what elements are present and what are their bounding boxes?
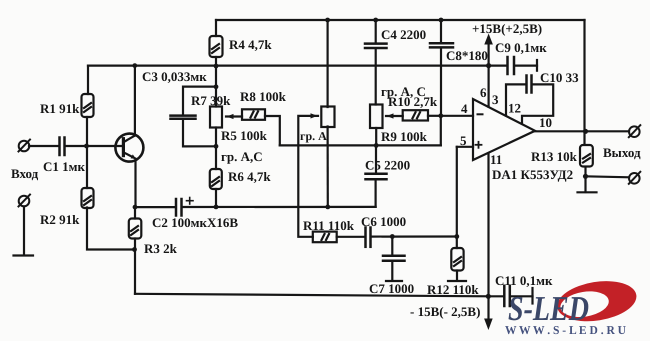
wire R10 right lead [428, 115, 441, 117]
wire R4 leads [215, 20, 217, 36]
wire pin11 / -15V stem [487, 154, 489, 319]
wire right drop to output [583, 20, 585, 144]
wire R8 trunk bottom [327, 127, 329, 207]
resistor R3 [129, 219, 142, 239]
wire R3 leads [134, 207, 136, 218]
wire R7 right leg [265, 116, 280, 145]
op-amp minus sign [478, 113, 483, 115]
svg-text:C11 0,1мк: C11 0,1мк [495, 273, 553, 288]
terminal output 2 [629, 172, 641, 184]
wire input to base [65, 145, 123, 147]
svg-text:C3 0,033мк: C3 0,033мк [142, 69, 207, 84]
svg-text:R7 39k: R7 39k [191, 93, 231, 108]
svg-text:DA1 К553УД2: DA1 К553УД2 [492, 167, 573, 182]
terminal output 1 [629, 125, 641, 137]
svg-text:C2 100мкХ16В: C2 100мкХ16В [152, 215, 238, 230]
wire C4 top lead [375, 20, 377, 43]
svg-text:R12 110k: R12 110k [427, 282, 479, 297]
capacitor C8 [430, 43, 453, 47]
transistor VT1 [115, 134, 143, 162]
wire pin6 [488, 66, 490, 107]
wire C2 to C5 bottom with R6 R8 taps [182, 206, 376, 208]
wire C11 end stub [531, 288, 533, 304]
svg-text:+15В(+2,5В): +15В(+2,5В) [472, 21, 542, 36]
svg-text:3: 3 [492, 92, 499, 107]
wire C7 bottom stub [391, 262, 393, 281]
svg-text:C7 1000: C7 1000 [369, 281, 414, 296]
terminal input 1 [19, 140, 31, 152]
wire top bootstrap rail [216, 19, 585, 21]
svg-text:C4 2200: C4 2200 [381, 27, 426, 42]
svg-text:Вход: Вход [11, 166, 39, 181]
wire collector lead [134, 66, 136, 136]
wire pin5 [457, 146, 473, 148]
svg-text:C10 33: C10 33 [540, 70, 579, 85]
wire R1 bottom lead [86, 117, 88, 146]
capacitor C9 [508, 57, 515, 74]
wire R8 wiper branch [298, 116, 318, 237]
capacitor C5 [366, 174, 387, 179]
svg-text:- 15В(- 2,5В): - 15В(- 2,5В) [410, 304, 480, 319]
trimmer R10 [403, 110, 428, 120]
wire C7 top lead [391, 237, 393, 256]
svg-text:R5 100k: R5 100k [221, 128, 268, 143]
wire C11 leads [488, 295, 503, 297]
wire R8 trunk top [327, 20, 329, 107]
capacitor C4 [365, 44, 387, 48]
wire C8 vertical [440, 20, 442, 43]
potentiometer R8 [311, 107, 335, 128]
wire C3 branch bottom [183, 120, 216, 147]
resistor R6 [210, 169, 222, 189]
capacitor C10 [527, 76, 532, 93]
svg-text:R1 91k: R1 91k [40, 101, 80, 116]
capacitor C2 [176, 199, 182, 216]
terminal input 2 [19, 195, 31, 207]
wire C9 leads [489, 64, 507, 66]
svg-text:C1 1мк: C1 1мк [43, 159, 85, 174]
wire to output terminal 2 [586, 176, 630, 177]
wire bus corner to R1 [87, 66, 89, 94]
svg-text:C8*180: C8*180 [446, 48, 488, 63]
wire emitter bus to C2 [135, 206, 175, 208]
wire R6 leads [215, 146, 217, 169]
wire input line [29, 145, 59, 147]
logo red swoosh [554, 276, 639, 327]
wire pin4 to op-amp [441, 115, 473, 117]
svg-text:C9 0,1мк: C9 0,1мк [495, 40, 547, 55]
svg-text:C6 1000: C6 1000 [361, 214, 406, 229]
svg-text:R3 2k: R3 2k [144, 241, 178, 256]
wire emitter lead [134, 160, 136, 208]
capacitor C7 [383, 256, 405, 261]
svg-text:6: 6 [480, 85, 487, 100]
polarity plus of C2 [187, 198, 194, 205]
resistor R4 [210, 36, 223, 57]
svg-text:R11 110k: R11 110k [303, 218, 355, 233]
wire pin4 leg up [440, 116, 442, 146]
svg-text:10: 10 [539, 115, 552, 130]
wire C10 loop [506, 84, 526, 115]
wire input terminal 2 drop [23, 207, 25, 256]
svg-text:R9 100k: R9 100k [381, 129, 428, 144]
resistor R13 [580, 145, 593, 167]
wire pin4 node line [280, 144, 441, 146]
wire R2 bottom to ground node [87, 208, 135, 250]
power -15V arrowhead [484, 319, 493, 331]
wire pin5 down to R12 [456, 147, 458, 248]
wire C3 branch top [183, 87, 216, 115]
capacitor C1 [60, 138, 65, 156]
power +15V arrowhead [484, 34, 493, 45]
svg-text:12: 12 [508, 101, 521, 116]
svg-text:11: 11 [490, 152, 502, 167]
wire R9 wiper to R10 [386, 115, 403, 117]
potentiometer R5 [210, 107, 234, 128]
resistor R12 [451, 248, 463, 271]
svg-text:R10 2,7k: R10 2,7k [388, 94, 438, 109]
potentiometer R9 [370, 105, 394, 129]
capacitor C11 [504, 286, 510, 306]
wire bottom ground rail [135, 294, 488, 297]
wire output line [534, 130, 629, 132]
svg-text:R6 4,7k: R6 4,7k [228, 169, 271, 184]
svg-text:C5 2200: C5 2200 [365, 158, 410, 173]
resistor R2 [82, 188, 94, 208]
wire C4 to R9 [375, 49, 377, 105]
wire R13 bottom node [584, 167, 586, 192]
op-amp DA1 [473, 99, 535, 160]
svg-text:W W W . S - L E D . R U: W W W . S - L E D . R U [505, 323, 626, 337]
wire C9 end stub [536, 60, 538, 71]
capacitor C3 [171, 116, 196, 119]
wire R5 trunk [215, 66, 217, 107]
wire C6 line R11 to pin5 [337, 236, 365, 238]
svg-text:4: 4 [461, 101, 468, 116]
svg-text:R13 10k: R13 10k [531, 149, 578, 164]
svg-text:гр. А,С: гр. А,С [221, 149, 263, 164]
wire +15V arrow stem [488, 43, 490, 66]
trimmer R11 [313, 232, 337, 243]
svg-text:R2 91k: R2 91k [40, 212, 80, 227]
resistor R1 [82, 94, 94, 117]
svg-text:5: 5 [460, 133, 467, 148]
svg-text:гр. А: гр. А [300, 129, 327, 143]
wire R5 wiper to R7 [226, 115, 242, 117]
wire +15V bus [88, 64, 489, 66]
svg-text:Выход: Выход [603, 145, 641, 160]
svg-text:R8 100k: R8 100k [240, 89, 287, 104]
wire C5 bottom lead [375, 180, 377, 207]
wire R9 bottom lead [375, 128, 377, 145]
svg-text:R4 4,7k: R4 4,7k [229, 37, 272, 52]
wire R12 bottom stub [456, 271, 458, 281]
trimmer R7 [242, 109, 265, 120]
wire R9 to C5 [375, 145, 377, 172]
op-amp plus sign [476, 142, 482, 148]
wire R2 top lead [86, 146, 88, 188]
capacitor C6 [366, 228, 371, 247]
